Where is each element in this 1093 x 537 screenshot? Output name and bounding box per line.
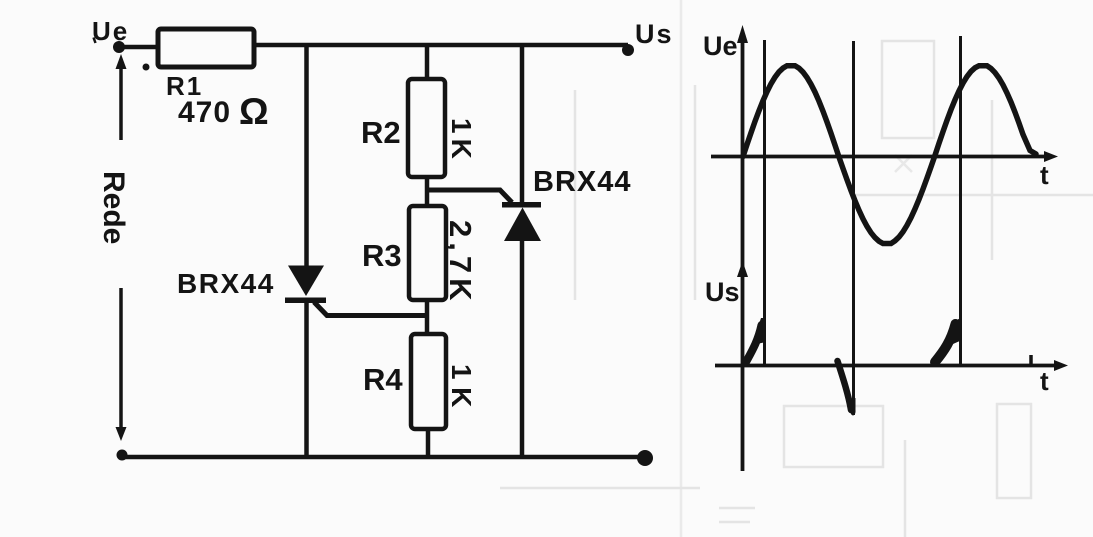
svg-text:BRX44: BRX44: [177, 268, 275, 299]
axis: Ue time axis: [711, 155, 1052, 159]
Us waveform lobe 1 (positive): [746, 325, 762, 362]
Us waveform lobe 3 (positive): [935, 324, 956, 362]
tick on Us axis: [1029, 355, 1033, 365]
wire: R4 to bottom rail: [426, 429, 431, 457]
arrow up (Rede indicator top): [119, 66, 123, 140]
arrow down (Rede indicator bottom): [119, 288, 123, 432]
axis: Us time axis: [715, 364, 1062, 368]
Ue sine waveform: [743, 66, 1036, 244]
node: bottom-left terminal dot: [117, 450, 128, 461]
svg-text:2,7K: 2,7K: [443, 220, 478, 305]
arrowhead Us axis (on shared vertical axis): [737, 261, 748, 277]
firing line 1: [763, 40, 766, 366]
node Us (output terminal dot): [622, 44, 634, 56]
svg-text:Ue: Ue: [92, 16, 129, 46]
axis: shared vertical axis: [741, 32, 745, 471]
svg-text:R3: R3: [362, 238, 402, 273]
svg-text:1K: 1K: [446, 118, 477, 164]
wire: R3 to R4: [425, 300, 430, 335]
svg-text:Us: Us: [635, 19, 674, 49]
resistor R1: [158, 29, 254, 67]
wire: R2 to R3: [425, 177, 430, 207]
wire: Ue node to R1: [119, 45, 160, 50]
Us waveform lobe 2 (negative): [838, 361, 852, 410]
svg-text:470: 470: [178, 96, 231, 129]
wire: left branch upper (top rail to SCR1 anode): [304, 43, 309, 267]
svg-text:Us: Us: [705, 277, 740, 307]
wire: top rail to R2: [425, 45, 430, 80]
wire: gate of SCR2 from R2/R3 junction: [427, 190, 512, 203]
wire: right branch upper (top rail to SCR2 cathode): [520, 45, 525, 203]
wire: top rail R1 to Us node: [254, 43, 628, 48]
resistor R4: [411, 334, 446, 429]
svg-text:1K: 1K: [446, 364, 477, 415]
firing line 2: [852, 41, 855, 415]
wire: right branch lower (SCR2 anode to bottom rail): [520, 240, 525, 457]
svg-text:t: t: [1040, 366, 1049, 396]
svg-text:Ue: Ue: [703, 31, 738, 61]
thyristor SCR2 BRX44 (right, pointing up): [502, 202, 541, 208]
wire: gate of SCR1 to R3/R4 junction: [314, 302, 427, 316]
resistor R3: [409, 206, 446, 300]
stray tick mark: [94, 38, 96, 44]
stray dot mark: [143, 64, 150, 71]
svg-text:BRX44: BRX44: [533, 166, 632, 198]
svg-text:R4: R4: [363, 362, 403, 397]
svg-text:Ω: Ω: [239, 91, 269, 132]
ghost print artifacts (faint): [500, 0, 1093, 537]
wire: left branch lower (SCR1 cathode to bottom rail): [304, 302, 309, 457]
svg-text:t: t: [1040, 160, 1049, 190]
arrowhead Ue axis: [737, 25, 748, 43]
svg-text:Rede: Rede: [97, 171, 130, 244]
svg-text:R2: R2: [361, 115, 401, 150]
bottom rail wire: [122, 455, 645, 460]
firing line 3: [959, 36, 962, 366]
thyristor SCR1 BRX44 (left, pointing down): [288, 266, 324, 297]
node: bottom-right terminal dot: [637, 450, 653, 466]
resistor R2: [408, 79, 445, 177]
node Ue (input terminal dot): [113, 41, 125, 53]
